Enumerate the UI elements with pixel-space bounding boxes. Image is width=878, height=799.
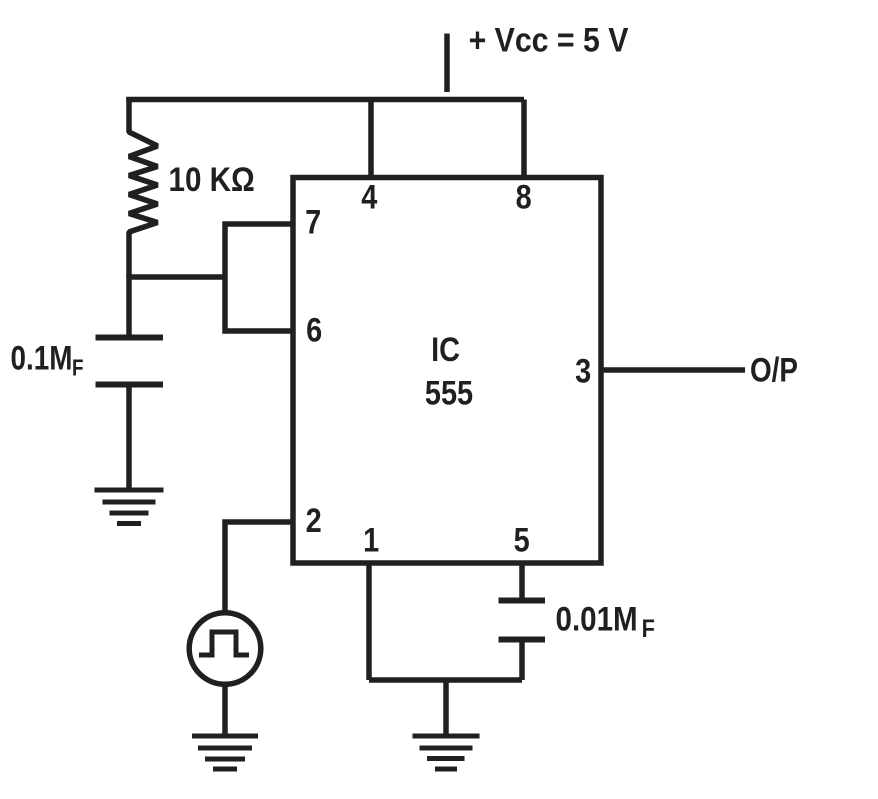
svg-text:0.01M: 0.01M [556, 600, 638, 638]
svg-text:F: F [642, 615, 655, 643]
svg-text:7: 7 [305, 202, 321, 241]
label 0.01MF [556, 600, 655, 643]
svg-text:2: 2 [306, 501, 322, 540]
pulse source V1 circle [189, 613, 261, 685]
label O/P [750, 351, 798, 389]
svg-text:3: 3 [575, 351, 591, 390]
pin 3 output wire [604, 367, 746, 373]
wire C2 to rail [519, 640, 525, 681]
svg-text:F: F [72, 356, 84, 381]
pin 1 wire [366, 563, 372, 680]
pin number 1 [363, 520, 379, 559]
capacitor C1 top plate [96, 335, 164, 341]
svg-text:IC: IC [431, 330, 460, 369]
label 555 [425, 373, 473, 412]
svg-text:+ Vcc = 5 V: + Vcc = 5 V [469, 21, 629, 59]
pin 2 wire [225, 522, 294, 611]
svg-text:0.1M: 0.1M [11, 339, 73, 377]
pin 8 wire [521, 100, 527, 177]
wire junction to C1 [126, 275, 132, 338]
ground GND2 [192, 736, 258, 769]
resistor R1 [129, 97, 158, 277]
ground GND1 [95, 490, 164, 524]
power stub +Vcc [444, 34, 450, 93]
wire node R1-C1 junction horizontal [129, 274, 225, 280]
pin number 7 [305, 202, 321, 241]
pulse waveform symbol [199, 632, 249, 655]
pin number 5 [514, 520, 530, 559]
svg-text:8: 8 [516, 177, 532, 216]
op IC U1 555 box [293, 178, 601, 564]
svg-text:4: 4 [361, 177, 377, 216]
svg-text:1: 1 [363, 520, 379, 559]
wire top rail [129, 100, 524, 103]
label 0.1MF [11, 339, 84, 381]
svg-text:6: 6 [306, 310, 322, 349]
wire pins 7-6 link [225, 224, 294, 331]
capacitor C2 top plate [499, 598, 546, 604]
bottom rail wire [369, 677, 522, 683]
svg-text:555: 555 [425, 373, 473, 412]
pin number 8 [516, 177, 532, 216]
label IC [431, 330, 460, 369]
label +Vcc = 5 V [469, 21, 629, 59]
label 10 KΩ [169, 160, 255, 198]
wire ground stub [443, 680, 449, 734]
pin number 4 [361, 177, 377, 216]
capacitor C1 bottom plate [96, 382, 164, 388]
pin 5 wire [519, 563, 525, 598]
wire V1 to ground [222, 686, 228, 735]
ground GND3 [413, 736, 480, 769]
svg-text:5: 5 [514, 520, 530, 559]
svg-text:O/P: O/P [750, 351, 798, 389]
svg-text:10 KΩ: 10 KΩ [169, 160, 255, 198]
pin number 3 [575, 351, 591, 390]
pin number 6 [306, 310, 322, 349]
pin number 2 [306, 501, 322, 540]
pin 4 wire [368, 100, 374, 177]
wire C1 to ground [126, 385, 132, 490]
capacitor C2 bottom plate [499, 637, 546, 643]
